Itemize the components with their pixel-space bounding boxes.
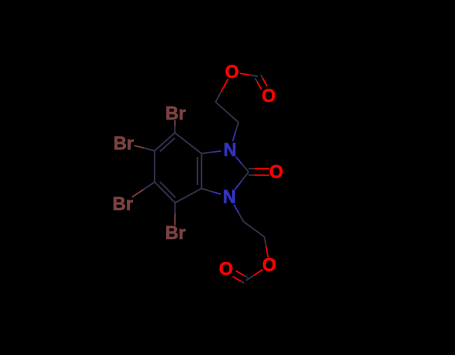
bond C7a-N1	[202, 151, 222, 154]
benzene ring bond C5-C6	[154, 151, 156, 182]
atom label Br lower-left	[113, 193, 134, 214]
bond C5-Br lower-left	[132, 182, 155, 197]
svg-text:O: O	[262, 86, 276, 106]
atom label Br bottom	[165, 222, 186, 243]
bond CH2-CH2 bottom chain	[244, 222, 265, 238]
carbonyl double bond bottom ester C=O	[233, 271, 248, 284]
benzene ring bond C6-C7	[155, 133, 175, 151]
atom label N3	[223, 187, 236, 207]
svg-text:Br: Br	[113, 193, 134, 214]
atom label O ester top	[225, 62, 239, 82]
bond N1-C2	[236, 157, 249, 172]
bond C4-Br bottom	[174, 203, 176, 226]
benzene ring bond C4-C5	[155, 182, 175, 203]
atom label O ester bottom	[262, 255, 276, 275]
svg-text:O: O	[262, 255, 276, 275]
atom label O carbonyl top	[262, 86, 276, 106]
bond O-C ester bottom	[246, 270, 263, 281]
svg-text:N: N	[223, 187, 236, 207]
benzene ring double bond C7a=C3a inner line	[197, 157, 199, 185]
bond N3-C3a	[202, 189, 221, 195]
bond O-C ester top	[240, 73, 258, 76]
benzene ring bond C3a-C4	[175, 189, 202, 203]
benzene ring bond C7a-C3a	[201, 154, 203, 189]
svg-text:Br: Br	[113, 132, 134, 153]
atom label Br upper-left	[113, 132, 134, 153]
carbonyl double bond C2=O	[249, 169, 270, 176]
bond C7-Br top	[174, 120, 176, 133]
bond CH2-O ester top	[216, 79, 229, 102]
bond CH2-O ester bottom	[265, 237, 269, 257]
svg-text:O: O	[269, 162, 283, 182]
svg-text:O: O	[219, 259, 233, 279]
atom label Br top	[165, 103, 186, 124]
svg-text:Br: Br	[165, 103, 186, 124]
atom label O carbonyl bottom	[219, 259, 233, 279]
bond CH2-CH2 top chain	[216, 102, 239, 122]
atom label O of C2=O	[269, 162, 283, 182]
bond C2-N3	[235, 172, 249, 190]
carbonyl double bond top ester C=O	[255, 75, 267, 90]
benzene ring double bond C4=C5 inner line	[160, 182, 176, 198]
bond N1-CH2 top chain	[233, 122, 239, 141]
benzene ring bond C7-C7a	[175, 133, 202, 154]
svg-text:N: N	[224, 140, 237, 160]
atom label N1	[224, 140, 237, 160]
bond C6-Br upper-left	[134, 146, 154, 151]
svg-text:O: O	[225, 62, 239, 82]
svg-text:Br: Br	[165, 222, 186, 243]
benzene ring double bond C6=C7 inner line	[160, 138, 175, 151]
bond N3-CH2 bottom chain	[234, 205, 244, 222]
